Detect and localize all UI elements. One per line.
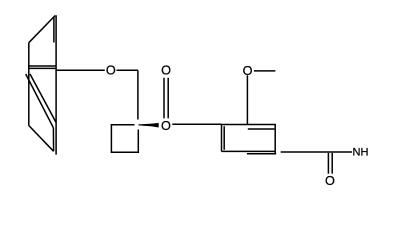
cage bond apex to left vertex (top-left diagonal) <box>29 16 55 43</box>
cage bottom edge <box>29 125 54 151</box>
amide C=O double bond lines <box>327 153 329 174</box>
svg-text:O: O <box>161 64 171 78</box>
benzene right edge <box>274 125 276 154</box>
cage lower C=C line B (diagonal) <box>30 74 56 122</box>
cage horizontal C=C main line <box>29 67 56 69</box>
cage top C=C inner line <box>53 17 55 43</box>
svg-text:NH: NH <box>353 147 369 159</box>
benzene top edge <box>221 124 276 126</box>
bond ether O to CH2 corner <box>117 69 138 71</box>
svg-text:O: O <box>243 64 253 78</box>
cage bond steep stub to bottom vertex <box>52 128 54 152</box>
bond methoxy O to methyl <box>254 70 276 72</box>
bond ester O to benzene ring <box>172 123 221 125</box>
svg-text:O: O <box>325 174 335 188</box>
bond methoxy O stem to ring <box>246 75 248 124</box>
svg-text:O: O <box>106 64 116 78</box>
benzene bottom-right second line (double bond) <box>247 153 276 155</box>
benzene left edge inner (double bond) <box>223 126 225 150</box>
bond cage to ether O <box>56 69 105 71</box>
bond ring to amide carbon and to N <box>281 151 352 153</box>
benzene bottom edge main <box>222 150 276 152</box>
cage lower C=C line A (diagonal) <box>26 74 54 128</box>
cage bond left vertical <box>28 43 30 126</box>
wedge bond cyclobutane to ester O <box>138 124 152 127</box>
cage bond right vertical <box>55 15 57 154</box>
bond CH2 down to cyclobutane C1 <box>137 70 139 119</box>
ester C=O double bond lines <box>163 78 165 119</box>
cage horizontal C=C inner line <box>29 65 56 67</box>
benzene left edge main <box>221 125 223 152</box>
benzene top-right inner line (double bond) <box>248 128 275 130</box>
svg-text:O: O <box>161 119 171 133</box>
cyclobutane ring <box>111 125 138 152</box>
